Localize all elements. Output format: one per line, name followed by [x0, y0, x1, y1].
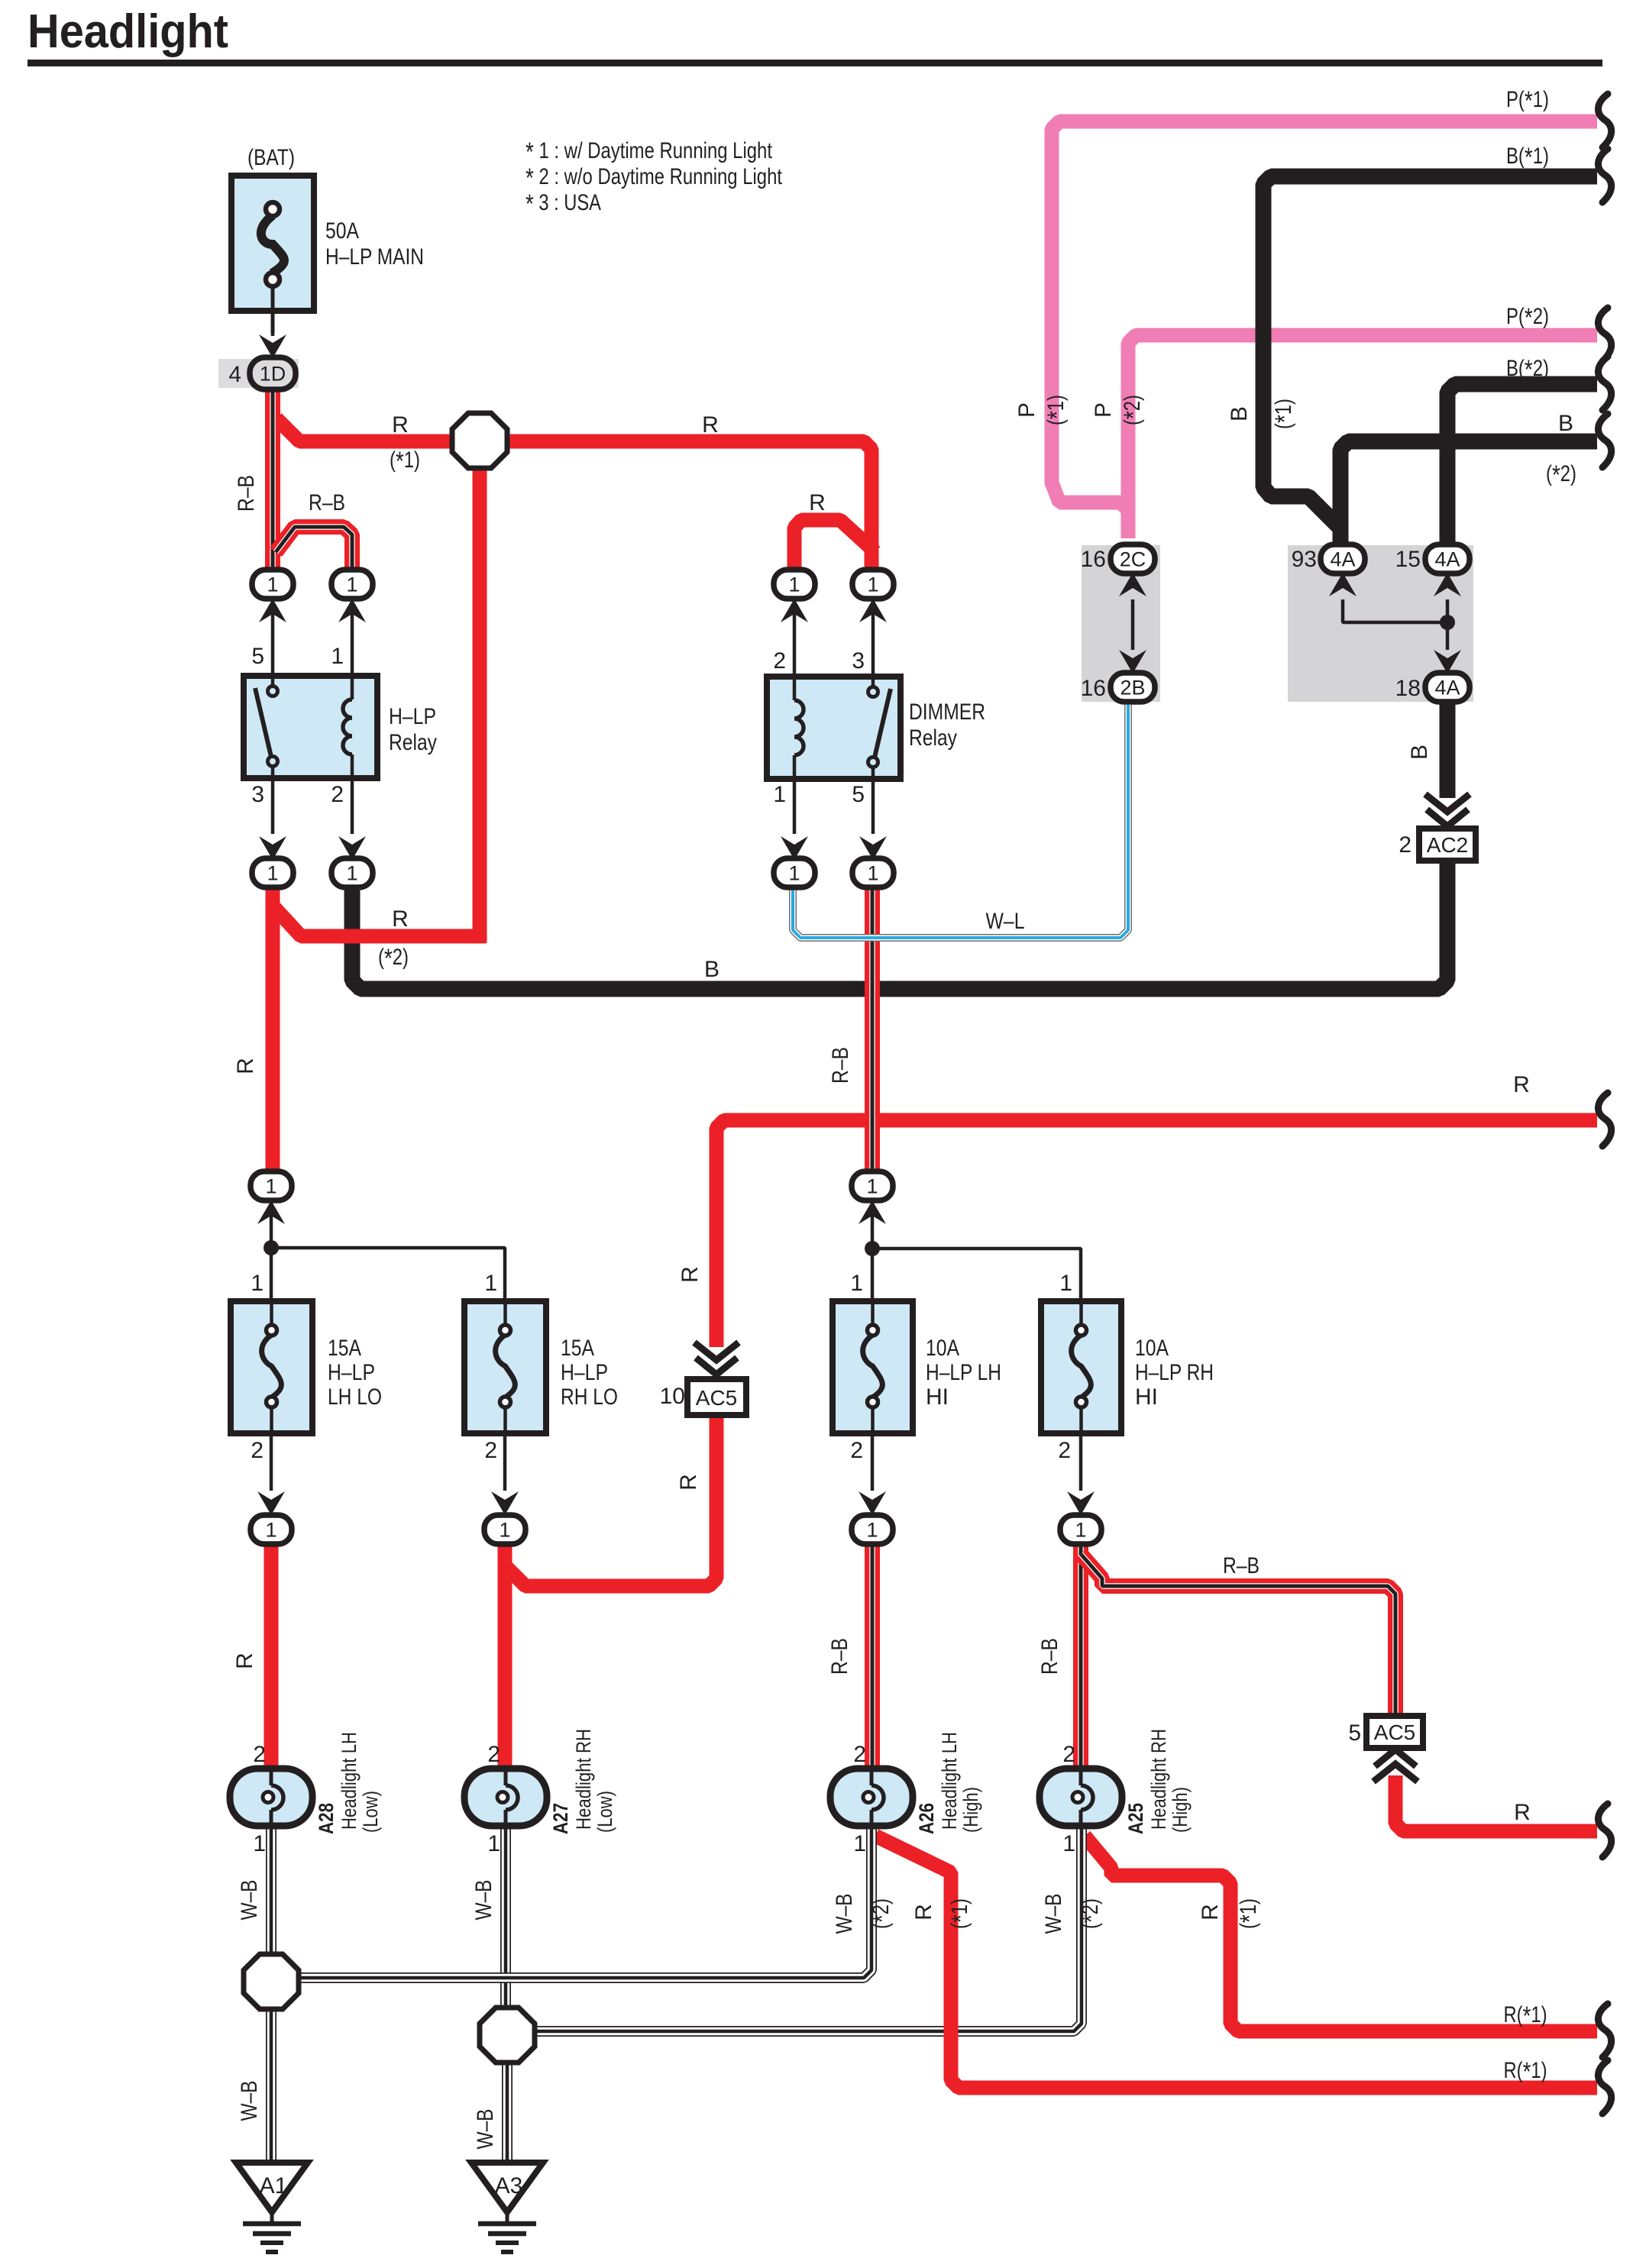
wire B (*2) from right edge joining 4A pin 93 [1340, 441, 1597, 544]
lead H-LP relay pin 5 [271, 605, 275, 676]
fuse 10A H-LP LH HI [833, 1301, 913, 1433]
svg-text:RH LO: RH LO [561, 1384, 618, 1410]
arrow into 1D [259, 334, 286, 358]
junction J3 [480, 2008, 535, 2063]
svg-text:A26: A26 [915, 1803, 938, 1834]
svg-text:R(*1): R(*1) [1504, 2001, 1547, 2031]
svg-text:A28: A28 [315, 1803, 338, 1834]
svg-text:2B: 2B [1120, 676, 1145, 699]
svg-text:R–B: R–B [1037, 1638, 1062, 1675]
wire R branch to DIMMER relay pin 2 [794, 520, 875, 573]
connector AC2 pin 2 [1419, 829, 1476, 861]
connector DIMMER pin 3 [852, 570, 894, 599]
connector 4A pin 15 [1425, 544, 1470, 573]
connector RH LO out [484, 1515, 525, 1544]
svg-text:10: 10 [660, 1384, 685, 1409]
continuation R(*1) lower [1598, 2060, 1611, 2114]
svg-text:P: P [1091, 402, 1116, 418]
wire B from 4A pin 18 to AC2 [1440, 699, 1456, 798]
svg-text:R: R [233, 1058, 258, 1074]
lead DIMMER relay pin 2 [793, 605, 797, 677]
svg-text:Headlight LH: Headlight LH [938, 1732, 961, 1830]
svg-text:1: 1 [867, 573, 878, 596]
lead fuse H-LP MAIN to 1D [271, 312, 275, 336]
svg-text:2: 2 [773, 648, 786, 674]
svg-text:2: 2 [251, 1438, 264, 1463]
continuation P(*1) [1598, 94, 1611, 147]
svg-text:1: 1 [251, 1271, 264, 1296]
fuse 50A H-LP MAIN [231, 176, 314, 334]
svg-text:5: 5 [251, 644, 264, 669]
arrow into AC2 [1425, 794, 1470, 826]
svg-text:R: R [702, 412, 719, 438]
svg-text:10A: 10A [926, 1336, 959, 1361]
svg-text:1: 1 [346, 861, 357, 884]
arrow into 4A pin 18 [1434, 650, 1461, 674]
svg-text:W–B: W–B [471, 1880, 496, 1921]
wire W-B headlight A27 to junction J3 [500, 1825, 511, 2010]
svg-text:W–L: W–L [986, 909, 1025, 934]
connector 2B [1111, 673, 1155, 702]
svg-text:P(*1): P(*1) [1506, 86, 1549, 116]
svg-text:2: 2 [484, 1438, 497, 1463]
fuse 15A H-LP LH LO [231, 1301, 312, 1433]
svg-text:R: R [677, 1266, 703, 1283]
svg-text:2: 2 [1062, 1742, 1075, 1767]
svg-text:R: R [1198, 1904, 1223, 1921]
connector H-LP pin 5 [252, 570, 293, 599]
svg-text:4A: 4A [1434, 548, 1460, 570]
svg-text:1: 1 [267, 861, 278, 884]
svg-text:DIMMER: DIMMER [909, 699, 985, 725]
svg-text:(*2): (*2) [1077, 1898, 1107, 1929]
lead H-LP relay pin 3 [271, 777, 275, 834]
svg-text:2C: 2C [1120, 548, 1146, 570]
arrow into DIMMER pin 3 oval [859, 599, 887, 622]
junction J1 [452, 413, 507, 468]
svg-text:(*1): (*1) [946, 1898, 976, 1929]
svg-text:H–LP: H–LP [561, 1360, 608, 1385]
wire W-B (*2) headlight A25 to junction J3 [532, 1825, 1082, 2031]
connector shade box 4A [1288, 545, 1473, 702]
svg-text:1: 1 [867, 861, 878, 884]
svg-text:5: 5 [852, 782, 865, 807]
svg-text:B: B [1227, 406, 1252, 422]
connector LH LO out [251, 1515, 292, 1544]
svg-text:2: 2 [487, 1742, 500, 1767]
continuation B(*2) upper [1598, 357, 1611, 410]
connector DIMMER pin 5 [852, 858, 894, 887]
wire R long horizontal to right edge and down to AC5 pin 10 [716, 1120, 1597, 1347]
fuse 10A H-LP RH HI [1041, 1301, 1121, 1433]
wire P (*1) from right edge to connector 2C [1052, 121, 1597, 538]
connector 1D [250, 357, 296, 389]
wire R from junction J1 to DIMMER relay pin 3 [507, 441, 871, 573]
svg-text:R: R [911, 1904, 936, 1921]
lead DIMMER relay pin 5 [871, 777, 875, 834]
lead DIMMER relay pin 1 [793, 777, 797, 834]
arrow into AC5 pin 5 [1373, 1749, 1418, 1782]
svg-text:B(*2): B(*2) [1506, 355, 1549, 385]
svg-text:1: 1 [788, 861, 800, 884]
svg-text:1: 1 [487, 1831, 500, 1856]
svg-text:1: 1 [253, 1831, 266, 1856]
wire R-B branch to H-LP relay pin 1 [276, 527, 352, 573]
arrow into DIMMER pin 1 oval [781, 836, 808, 860]
svg-text:1: 1 [346, 573, 357, 596]
svg-text:* 2 : w/o Daytime Running Ligh: * 2 : w/o Daytime Running Light [525, 163, 783, 193]
connector H-LP pin 1 [331, 570, 373, 599]
connector AC5 pin 10 [687, 1379, 746, 1415]
svg-text:1: 1 [331, 644, 344, 669]
arrow into H-LP pin 3 oval [259, 836, 286, 860]
wire R (*1) from headlight A25 to right edge [1085, 1836, 1597, 2031]
svg-text:(*1): (*1) [390, 447, 420, 477]
svg-text:18: 18 [1395, 676, 1421, 701]
wire R-B fuse LH HI to headlight A26 [865, 1543, 880, 1770]
svg-text:H–LP LH: H–LP LH [926, 1360, 1001, 1385]
continuation B(*1) [1598, 149, 1611, 202]
wire R-B from DIMMER relay pin 5 down [865, 886, 880, 1176]
ground A3 [471, 2163, 543, 2252]
lamp A26 Headlight LH (High) [830, 1769, 913, 1826]
svg-text:R: R [809, 490, 826, 515]
svg-text:1: 1 [267, 573, 278, 596]
svg-text:B(*1): B(*1) [1506, 143, 1549, 173]
arrow into LH HI out oval [859, 1491, 886, 1515]
svg-text:W–B: W–B [237, 2081, 262, 2121]
lead fuse LH HI pin 2 [871, 1433, 875, 1491]
connector LH LO feed [251, 1171, 292, 1200]
svg-text:HI: HI [926, 1384, 949, 1410]
wire B (*1) from right edge to connector 4A pin 93 [1263, 176, 1597, 544]
lead branch to fuse RH HI [872, 1249, 1081, 1301]
svg-text:50A: 50A [325, 218, 359, 244]
svg-text:A1: A1 [260, 2173, 288, 2199]
svg-text:1D: 1D [260, 362, 286, 385]
lead 4A pin 93 branch [1343, 599, 1447, 622]
connector 2C [1111, 544, 1155, 573]
svg-text:Headlight RH: Headlight RH [572, 1729, 595, 1830]
svg-text:10A: 10A [1135, 1336, 1169, 1361]
junction dot right fuse feed [865, 1241, 880, 1256]
arrow into AC5 pin 10 [694, 1342, 739, 1375]
svg-text:R: R [676, 1474, 701, 1491]
svg-text:W–B: W–B [832, 1894, 857, 1934]
wire R-B branch from RH HI to AC5 pin 5 [1081, 1554, 1395, 1714]
svg-text:R–B: R–B [309, 490, 345, 515]
connector DIMMER pin 1 [774, 858, 815, 887]
wire R-B fuse RH HI to headlight A25 [1073, 1543, 1088, 1770]
wire R (*1) from headlight A26 to right edge [875, 1836, 1597, 2088]
svg-text:(*2): (*2) [868, 1898, 897, 1929]
connector H-LP pin 2 [331, 858, 373, 887]
svg-text:W–B: W–B [237, 1880, 262, 1921]
lamp A25 Headlight RH (High) [1040, 1769, 1122, 1826]
wire W-B junction J3 to ground A3 [502, 2062, 513, 2163]
connector LH HI feed [852, 1171, 893, 1200]
lead fuse feed LH HI [871, 1203, 875, 1301]
svg-text:4A: 4A [1434, 676, 1460, 699]
svg-text:Headlight LH: Headlight LH [338, 1732, 361, 1830]
svg-text:* 3 : USA: * 3 : USA [525, 189, 601, 219]
svg-text:P(*2): P(*2) [1506, 303, 1549, 333]
svg-text:B: B [1558, 411, 1573, 436]
arrow into 4A pin 93 [1329, 573, 1357, 596]
svg-text:R: R [392, 906, 409, 932]
continuation P(*2) [1598, 308, 1611, 361]
wire W-B (*2) headlight A26 to junction J2 [296, 1825, 871, 1978]
svg-text:HI: HI [1135, 1384, 1158, 1410]
continuation R mid [1598, 1093, 1611, 1146]
svg-text:2: 2 [331, 782, 344, 807]
svg-text:A3: A3 [495, 2173, 523, 2199]
wire B (*2) from right edge to connector 4A pin 15 [1447, 384, 1597, 544]
svg-text:W–B: W–B [473, 2109, 498, 2150]
svg-text:2: 2 [1399, 832, 1411, 858]
svg-text:1: 1 [866, 1174, 878, 1197]
arrow into H-LP pin 2 oval [338, 836, 366, 860]
svg-text:B: B [1407, 745, 1432, 760]
svg-text:1: 1 [1062, 1831, 1075, 1856]
svg-text:(*2): (*2) [1546, 460, 1576, 490]
svg-text:93: 93 [1292, 547, 1317, 572]
svg-text:15: 15 [1395, 547, 1421, 572]
connector DIMMER pin 2 [774, 570, 815, 599]
svg-text:2: 2 [850, 1438, 863, 1463]
title underline rule [27, 60, 1602, 66]
wire P (*2) from right edge to connector 2C [1128, 335, 1597, 538]
junction dot 4A [1440, 615, 1455, 630]
ground A1 [236, 2163, 308, 2252]
wire W-B junction J2 to ground A1 [266, 2008, 276, 2163]
connector 4A pin 93 [1321, 544, 1365, 573]
svg-text:(Low): (Low) [359, 1791, 382, 1833]
lead H-LP relay pin 1 [351, 605, 354, 676]
wire R from AC5 pin 10 to fuse H-LP RH LO output [505, 1415, 716, 1586]
svg-text:AC2: AC2 [1427, 833, 1468, 857]
arrow into 2C [1119, 573, 1146, 596]
wire R from AC5 pin 5 to right edge [1395, 1775, 1597, 1831]
svg-text:1: 1 [1075, 1518, 1086, 1541]
lead fuse feed LH LO [270, 1203, 273, 1301]
arrow into 4A pin 15 [1434, 573, 1461, 596]
arrow into DIMMER pin 2 oval [781, 599, 808, 622]
svg-text:Headlight RH: Headlight RH [1147, 1729, 1170, 1830]
svg-text:H–LP MAIN: H–LP MAIN [325, 244, 424, 270]
connector LH HI out [852, 1515, 893, 1544]
junction J2 [244, 1954, 299, 2009]
relay H-LP Relay [244, 676, 377, 778]
connector RH HI out [1060, 1515, 1101, 1544]
lead fuse RH LO pin 2 [503, 1433, 507, 1491]
svg-text:(Low): (Low) [593, 1791, 616, 1833]
svg-text:(*2): (*2) [378, 944, 409, 974]
svg-text:1: 1 [866, 1518, 878, 1541]
svg-text:A27: A27 [549, 1803, 572, 1834]
svg-text:R: R [1513, 1072, 1530, 1097]
svg-text:2: 2 [1058, 1438, 1071, 1463]
svg-text:3: 3 [852, 648, 865, 674]
svg-text:AC5: AC5 [1374, 1720, 1415, 1744]
svg-text:Headlight: Headlight [27, 5, 228, 58]
lead H-LP relay pin 2 [351, 777, 354, 834]
wire R from 1D to junction J1 [276, 418, 452, 441]
wire R from junction J1 down [473, 469, 487, 943]
svg-text:(*1): (*1) [1043, 395, 1072, 425]
svg-text:16: 16 [1081, 547, 1106, 572]
svg-text:H–LP: H–LP [328, 1360, 375, 1385]
fuse 15A H-LP RH LO [464, 1301, 546, 1433]
svg-text:2: 2 [253, 1742, 266, 1767]
svg-text:1: 1 [499, 1518, 510, 1541]
wire R (*1) over crossing [944, 1872, 959, 2080]
svg-text:4: 4 [228, 362, 241, 387]
svg-text:W–B: W–B [1041, 1894, 1066, 1934]
wire W-L from DIMMER relay pin 1 to connector 2B [793, 705, 1128, 938]
svg-text:(High): (High) [959, 1787, 982, 1833]
svg-text:R(*1): R(*1) [1504, 2057, 1547, 2087]
lamp A28 Headlight LH (Low) [230, 1769, 312, 1826]
continuation B(*2) lower [1598, 414, 1611, 467]
arrow into LH LO out oval [257, 1491, 285, 1515]
svg-text:(*1): (*1) [1235, 1898, 1265, 1929]
lead fuse RH HI pin 2 [1079, 1433, 1083, 1491]
svg-text:R: R [232, 1653, 257, 1669]
arrow into H-LP pin 1 oval [338, 599, 366, 622]
svg-text:2: 2 [853, 1742, 866, 1767]
svg-text:(High): (High) [1169, 1787, 1192, 1833]
svg-text:R–B: R–B [234, 475, 259, 512]
wire R (*2) branch [274, 907, 486, 936]
lead 4A pin 15 to pin 18 [1446, 599, 1450, 650]
arrow into 2B [1119, 650, 1146, 674]
svg-text:A25: A25 [1124, 1803, 1147, 1834]
continuation R AC5 [1598, 1804, 1611, 1857]
svg-text:Relay: Relay [389, 730, 437, 755]
continuation R(*1) upper [1598, 2004, 1611, 2057]
svg-text:1: 1 [850, 1271, 863, 1296]
svg-text:H–LP: H–LP [389, 704, 436, 729]
svg-text:1: 1 [853, 1831, 866, 1856]
svg-text:1: 1 [788, 573, 800, 596]
svg-text:R–B: R–B [1223, 1553, 1260, 1578]
connector H-LP pin 3 [252, 858, 293, 887]
svg-text:1: 1 [265, 1518, 276, 1541]
wire W-B headlight A28 to junction J2 [266, 1825, 276, 1956]
wire B from H-LP relay pin 2 to connector AC2 [352, 861, 1447, 989]
relay DIMMER Relay [767, 677, 901, 779]
svg-text:R–B: R–B [828, 1047, 853, 1084]
lead fuse LH LO pin 2 [270, 1433, 273, 1491]
svg-text:(BAT): (BAT) [247, 145, 295, 170]
wire R from H-LP relay pin 3 down to fuse feed [266, 884, 280, 1176]
arrow into RH HI out oval [1067, 1491, 1095, 1515]
lead DIMMER relay pin 3 [871, 605, 875, 677]
svg-text:(*1): (*1) [1270, 399, 1300, 429]
lead between 2C and 2B [1131, 599, 1135, 650]
svg-text:Relay: Relay [909, 725, 957, 751]
svg-text:15A: 15A [328, 1336, 361, 1361]
svg-text:LH LO: LH LO [328, 1384, 382, 1410]
connector AC5 pin 5 [1366, 1716, 1423, 1748]
wire R to headlight A27 [498, 1565, 513, 1770]
connector 4A pin 18 [1425, 673, 1470, 702]
svg-text:1: 1 [265, 1174, 276, 1197]
svg-text:P: P [1014, 402, 1040, 418]
svg-text:15A: 15A [561, 1336, 594, 1361]
svg-text:R: R [392, 412, 409, 438]
svg-text:* 1 : w/ Daytime Running Light: * 1 : w/ Daytime Running Light [525, 137, 773, 167]
wire R fuse LH LO to headlight A28 [264, 1543, 279, 1770]
lead branch to fuse RH LO [271, 1248, 505, 1301]
svg-text:3: 3 [251, 782, 264, 807]
arrow into H-LP pin 5 oval [259, 599, 286, 622]
svg-text:B: B [704, 957, 719, 982]
svg-text:4A: 4A [1330, 548, 1355, 570]
svg-text:H–LP RH: H–LP RH [1135, 1360, 1214, 1385]
connector shade box 2C/2B [1082, 545, 1160, 702]
svg-text:16: 16 [1081, 676, 1106, 701]
arrow into RH LO out oval [491, 1491, 519, 1515]
connector shade box 1D [218, 359, 299, 388]
svg-text:R: R [1514, 1800, 1531, 1825]
lamp A27 Headlight RH (Low) [464, 1769, 547, 1826]
svg-text:1: 1 [773, 782, 786, 807]
svg-text:1: 1 [484, 1271, 497, 1296]
svg-text:5: 5 [1348, 1720, 1361, 1746]
svg-text:(*2): (*2) [1119, 395, 1149, 425]
arrow into DIMMER pin 5 oval [859, 836, 887, 860]
arrow into LH HI feed oval [859, 1200, 886, 1224]
svg-text:AC5: AC5 [696, 1386, 737, 1410]
wire R-B from connector 1D to H-LP relay pin 5 [265, 386, 280, 573]
junction dot left fuse feed [264, 1240, 279, 1255]
arrow into LH LO feed oval [257, 1200, 285, 1224]
svg-text:R–B: R–B [827, 1638, 852, 1675]
svg-text:1: 1 [1059, 1271, 1072, 1296]
